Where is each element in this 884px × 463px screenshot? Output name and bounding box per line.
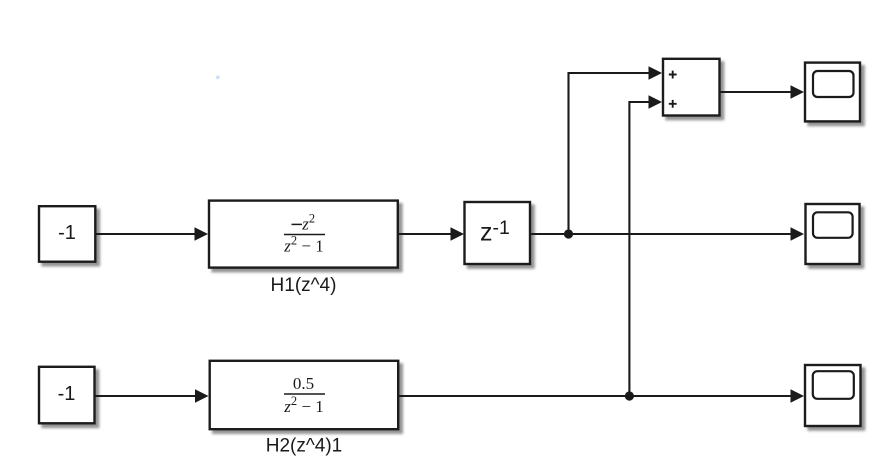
plus sign input 2 [669,100,677,108]
stray grid dot [217,76,220,79]
arrowhead into S2 [791,227,805,241]
junction node A [564,229,573,238]
svg-text:0.5: 0.5 [293,374,314,393]
wire Z^-1 to S2 [531,233,792,235]
wire C1 to H1 [96,233,196,235]
arrowhead into sum input 1 [649,66,663,80]
arrowhead into S3 [791,389,805,403]
scope block S2 [806,204,860,264]
wire H2 to S3 [399,395,792,397]
svg-text:z2 − 1: z2 − 1 [283,394,323,416]
svg-text:H1(z^4): H1(z^4) [271,275,337,296]
svg-text:-1: -1 [58,222,76,244]
wire node B to sum input 2 [629,102,649,396]
svg-text:-1: -1 [58,383,76,405]
constant block C1 (-1) [39,206,95,262]
sum block U1 [663,59,720,116]
unit delay block Z^-1 [465,202,531,264]
plus sign input 1 [669,71,677,79]
junction node B [625,391,634,400]
constant block C2 (-1) [39,367,95,424]
scope block S3 [805,365,861,426]
arrowhead into S1 [791,85,805,99]
wire H1 to Z^-1 [399,233,452,235]
svg-text:z2 − 1: z2 − 1 [283,234,323,256]
transfer fn block H1 [209,201,398,268]
scope block S1 [805,63,860,122]
arrowhead into Z^-1 [451,227,465,241]
arrowhead into H1 [195,227,209,241]
transfer fn block H2 [210,361,399,429]
svg-text:H2(z^4)1: H2(z^4)1 [266,436,343,457]
wire node A to sum input 1 [569,73,650,234]
arrowhead into sum input 2 [649,95,663,109]
wire C2 to H2 [95,395,196,397]
wire sum to S1 [720,91,792,93]
arrowhead into H2 [195,389,209,403]
